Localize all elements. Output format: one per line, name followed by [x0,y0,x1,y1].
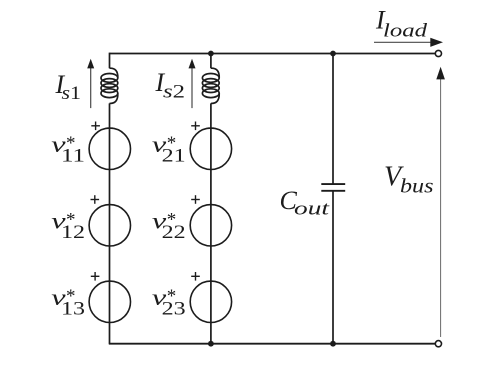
label Iload [375,6,428,42]
svg-text:12: 12 [61,222,85,243]
label v13 [51,285,85,319]
junction dot top branch2 [208,51,214,57]
arrow Is1 [87,59,94,108]
junction dot bottom capacitor [330,341,336,347]
label Is2 [155,68,186,103]
inductor L2 [202,68,219,103]
label Is1 [55,70,82,104]
wire capacitor branch bottom [332,191,334,344]
svg-text:out: out [294,199,330,220]
terminal top right [435,50,441,56]
source v11 plus [91,122,100,131]
inductor L1 [101,68,118,103]
wire capacitor branch top [332,53,334,184]
source v13 circle [89,281,130,322]
source v11 circle [89,128,130,169]
arrow Vbus measure line [436,67,445,337]
source v12 circle [89,205,130,246]
svg-text:bus: bus [400,176,434,198]
source v23 plus [191,272,200,281]
wire branch 2 vertical [210,53,212,344]
junction dot top capacitor [330,51,336,57]
arrow Is2 [189,59,196,108]
svg-text:11: 11 [61,146,85,167]
svg-text:s2: s2 [163,82,185,103]
source v23 circle [190,281,231,322]
junction dot bottom branch2 [208,341,214,347]
source v21 plus [191,122,200,131]
svg-text:22: 22 [162,222,186,243]
label v23 [152,285,186,319]
svg-text:21: 21 [162,146,186,167]
wire bottom bus [109,343,436,345]
label Vbus [384,162,434,198]
label v12 [51,209,85,243]
label v11 [51,132,85,166]
source v21 circle [190,128,231,169]
label v21 [152,132,186,166]
source v13 plus [91,272,100,281]
svg-text:23: 23 [162,299,186,320]
label v22 [152,209,186,243]
svg-text:load: load [383,20,428,41]
terminal bottom right [435,341,441,347]
capacitor Cout plates [321,184,345,191]
source v22 circle [190,205,231,246]
label Cout [280,186,331,220]
source v22 plus [191,195,200,204]
wire top bus [110,53,436,55]
svg-text:13: 13 [61,299,85,320]
arrow Iload [374,38,443,47]
wire branch 1 vertical [109,53,111,344]
svg-text:s1: s1 [62,83,82,104]
source v12 plus [91,195,100,204]
